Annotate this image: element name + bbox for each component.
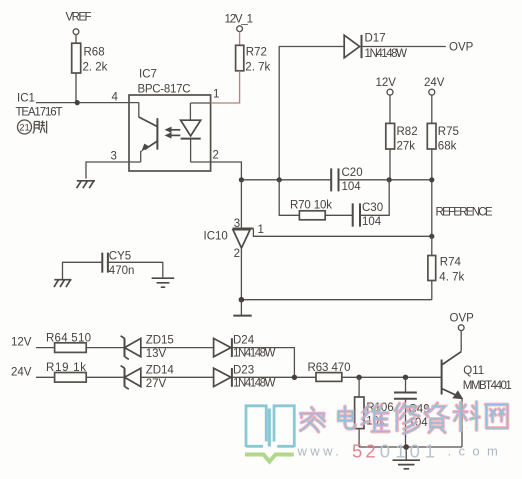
wire R70 to C30 bbox=[325, 214, 353, 216]
zener ZD15 bbox=[121, 335, 174, 360]
svg-text:13V: 13V bbox=[146, 348, 167, 360]
wire IC7 pin3 to ground bbox=[86, 162, 141, 179]
svg-text:24V: 24V bbox=[424, 77, 445, 89]
diode D24 bbox=[214, 335, 276, 360]
wire 12V to R82 bbox=[389, 95, 391, 123]
optocoupler IC7 body bbox=[111, 89, 220, 172]
junction dot IC10 anode bbox=[239, 297, 245, 303]
wire ground rail bbox=[359, 446, 462, 448]
wire CY5 right to earth bbox=[108, 262, 163, 277]
resistor R72 bbox=[236, 45, 271, 73]
svg-text:R68: R68 bbox=[84, 47, 105, 59]
shunt regulator IC10 bbox=[204, 218, 264, 260]
svg-text:Q11: Q11 bbox=[463, 365, 484, 377]
svg-text:27V: 27V bbox=[146, 378, 167, 390]
svg-text:BPC-817C: BPC-817C bbox=[138, 84, 191, 96]
char jia bbox=[301, 408, 325, 432]
watermark url text bbox=[297, 441, 506, 462]
svg-text:OVP: OVP bbox=[449, 42, 474, 54]
svg-text:12V: 12V bbox=[376, 77, 397, 89]
ground earth under Q11 rail bbox=[393, 447, 421, 469]
wire Q11 emitter to rail bbox=[461, 399, 463, 447]
junction dot rows join bbox=[292, 375, 297, 380]
wire 12V_1 to R72 bbox=[239, 32, 241, 46]
svg-text:R72: R72 bbox=[246, 47, 267, 59]
junction dot REFERENCE/R74 bbox=[429, 234, 434, 239]
char xiu bbox=[395, 404, 419, 434]
node 12V terminal top bbox=[376, 77, 397, 95]
svg-text:470n: 470n bbox=[109, 265, 135, 277]
svg-text:IC10: IC10 bbox=[204, 231, 228, 243]
svg-text:3: 3 bbox=[111, 151, 117, 163]
wire R68 to junction bbox=[75, 73, 77, 103]
svg-text:ZD14: ZD14 bbox=[146, 365, 175, 377]
wire VREF to R68 bbox=[75, 35, 77, 44]
svg-text:27k: 27k bbox=[397, 141, 416, 153]
svg-text:R75: R75 bbox=[438, 126, 459, 138]
svg-text:D23: D23 bbox=[233, 365, 254, 377]
capacitor CY5 bbox=[102, 251, 134, 278]
svg-text:4: 4 bbox=[112, 92, 119, 104]
svg-text:R19 1k: R19 1k bbox=[46, 362, 86, 374]
wire IC1 pin21 to IC7 pin4 bbox=[36, 102, 139, 104]
svg-text:TEA1716T: TEA1716T bbox=[16, 107, 63, 119]
svg-text:D24: D24 bbox=[233, 335, 255, 347]
resistor R106 bbox=[355, 377, 394, 447]
svg-text:2. 2k: 2. 2k bbox=[83, 62, 108, 74]
junction dot R106 tap bbox=[356, 375, 361, 380]
svg-text:REFERENCE: REFERENCE bbox=[436, 207, 493, 219]
svg-text:R82: R82 bbox=[397, 126, 418, 138]
diode D23 bbox=[214, 365, 276, 390]
watermark book icon bbox=[246, 406, 294, 447]
wire R82 to bus bbox=[389, 149, 391, 180]
svg-text:R70 10k: R70 10k bbox=[290, 200, 332, 212]
wire D23 to R63 bbox=[232, 376, 316, 378]
wire IC7 pin2 to junction bbox=[211, 162, 242, 180]
optocoupler IC7 labels bbox=[138, 69, 191, 96]
svg-text:2. 7k: 2. 7k bbox=[245, 62, 270, 74]
svg-text:ZD15: ZD15 bbox=[146, 335, 174, 347]
wire IC10 ref pin to R74 junction bbox=[253, 229, 431, 237]
wire 24V to R19 bbox=[36, 376, 55, 378]
svg-text:1N4148W: 1N4148W bbox=[233, 378, 276, 390]
resistor R75 bbox=[427, 123, 459, 152]
svg-text:21: 21 bbox=[19, 123, 30, 134]
zener ZD14 bbox=[121, 365, 175, 391]
node OVP terminal bottom bbox=[450, 313, 475, 331]
svg-text:4. 7k: 4. 7k bbox=[439, 272, 464, 284]
svg-text:1N4148W: 1N4148W bbox=[365, 48, 408, 60]
svg-text:C20: C20 bbox=[342, 167, 363, 179]
wire R64 to ZD15 bbox=[86, 347, 124, 349]
wire R63 to Q11 base bbox=[342, 376, 442, 378]
wire R19 to ZD14 bbox=[86, 376, 124, 378]
resistor R64 bbox=[46, 332, 91, 352]
ground under IC10 bbox=[233, 300, 251, 316]
resistor R19 bbox=[46, 362, 86, 382]
glyph jiao (pin) bbox=[33, 121, 47, 134]
node IC1 pin21 labels bbox=[16, 93, 63, 135]
wire ZD15 to D24 bbox=[141, 347, 214, 349]
svg-text:.com: .com bbox=[448, 444, 506, 459]
char dian bbox=[339, 407, 356, 429]
resistor R68 bbox=[72, 43, 108, 73]
svg-text:R63 470: R63 470 bbox=[308, 362, 351, 374]
junction dot ground rail bbox=[403, 444, 409, 450]
svg-text:12V_1: 12V_1 bbox=[225, 14, 254, 26]
wire R74 leads bbox=[431, 236, 433, 299]
wire D24 to row2 junction bbox=[232, 348, 295, 378]
resistor R63 bbox=[308, 362, 351, 381]
wire ZD14 to D23 bbox=[141, 376, 214, 378]
transistor Q11 bbox=[442, 331, 512, 400]
svg-text:R64 510: R64 510 bbox=[46, 332, 91, 344]
phototransistor of IC7 bbox=[138, 103, 140, 118]
svg-text:2: 2 bbox=[213, 150, 219, 162]
junction dot IC1/R68 bbox=[75, 100, 80, 105]
svg-text:2: 2 bbox=[234, 248, 240, 260]
wire C30 up to bus bbox=[360, 180, 389, 216]
LED of IC7 bbox=[189, 103, 191, 120]
svg-text:CY5: CY5 bbox=[109, 251, 131, 263]
wire IC10 cathode from bus bbox=[240, 180, 242, 229]
wire bus row bbox=[241, 179, 431, 181]
diode D17 bbox=[344, 33, 407, 61]
resistor R74 bbox=[428, 256, 465, 284]
svg-text:1N4148W: 1N4148W bbox=[233, 348, 276, 360]
capacitor C49 bbox=[394, 377, 430, 447]
svg-text:VREF: VREF bbox=[66, 12, 92, 24]
svg-text:www.: www. bbox=[297, 444, 343, 459]
node 24V terminal top bbox=[424, 77, 445, 95]
ground earth right of CY5 bbox=[152, 278, 175, 287]
svg-text:IC7: IC7 bbox=[139, 69, 157, 81]
light arrows of IC7 bbox=[170, 129, 181, 131]
char liao bbox=[454, 402, 480, 431]
wire branch to R70 bbox=[279, 180, 299, 216]
wire D17 anode bbox=[279, 47, 344, 180]
wire D17 cathode to OVP bbox=[362, 46, 446, 48]
wire R75 down through junctions bbox=[431, 149, 433, 236]
svg-text:C30: C30 bbox=[362, 202, 383, 214]
svg-text:MMBT4401: MMBT4401 bbox=[463, 380, 512, 392]
junction dots bus bbox=[239, 177, 244, 182]
svg-text:1: 1 bbox=[258, 224, 264, 236]
svg-text:68k: 68k bbox=[438, 141, 457, 153]
node VREF terminal bbox=[66, 12, 92, 35]
svg-text:R74: R74 bbox=[440, 257, 462, 269]
resistor R82 bbox=[386, 123, 418, 152]
resistor R70 bbox=[290, 200, 332, 220]
svg-text:12V: 12V bbox=[11, 337, 32, 349]
wire IC10 anode rail bbox=[241, 248, 431, 300]
char wei bbox=[362, 405, 389, 432]
svg-text:OVP: OVP bbox=[450, 313, 475, 325]
svg-text:1: 1 bbox=[213, 89, 219, 101]
LED frame lines bbox=[190, 103, 210, 162]
svg-text:IC1: IC1 bbox=[17, 93, 35, 105]
capacitor C30 bbox=[353, 202, 383, 228]
ground chassis left of CY5 bbox=[54, 280, 72, 287]
svg-text:24V: 24V bbox=[11, 367, 32, 379]
svg-text:104: 104 bbox=[362, 216, 382, 228]
node 12V_1 terminal bbox=[225, 14, 254, 32]
junction dot C49 tap bbox=[403, 375, 408, 380]
svg-text:D17: D17 bbox=[365, 33, 386, 45]
capacitor C20 bbox=[331, 167, 362, 193]
char wang bbox=[486, 405, 508, 429]
wire 24V to R75 bbox=[431, 95, 433, 123]
ground chassis under IC7 pin3 bbox=[77, 181, 95, 188]
wire CY5 left to chassis ground bbox=[63, 262, 103, 279]
char zi bbox=[425, 403, 449, 433]
wire R72 to IC7 pin1 bbox=[211, 71, 240, 103]
svg-text:104: 104 bbox=[342, 181, 362, 193]
wire 12V to R64 bbox=[36, 347, 55, 349]
watermark book ribbon bbox=[245, 455, 294, 462]
